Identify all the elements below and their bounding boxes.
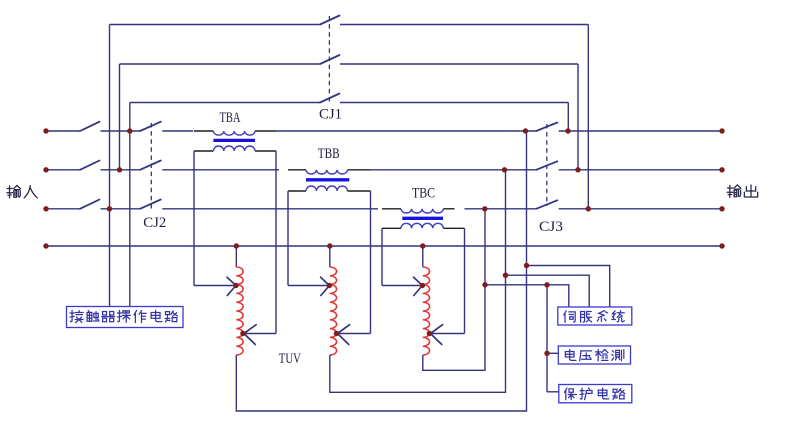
svg-text:CJ3: CJ3 bbox=[539, 219, 563, 235]
svg-text:TBA: TBA bbox=[220, 110, 241, 126]
svg-text:TUV: TUV bbox=[279, 351, 301, 367]
svg-text:CJ2: CJ2 bbox=[143, 215, 166, 231]
svg-text:CJ1: CJ1 bbox=[319, 106, 342, 122]
svg-text:TBB: TBB bbox=[318, 146, 340, 162]
svg-text:TBC: TBC bbox=[412, 185, 435, 201]
